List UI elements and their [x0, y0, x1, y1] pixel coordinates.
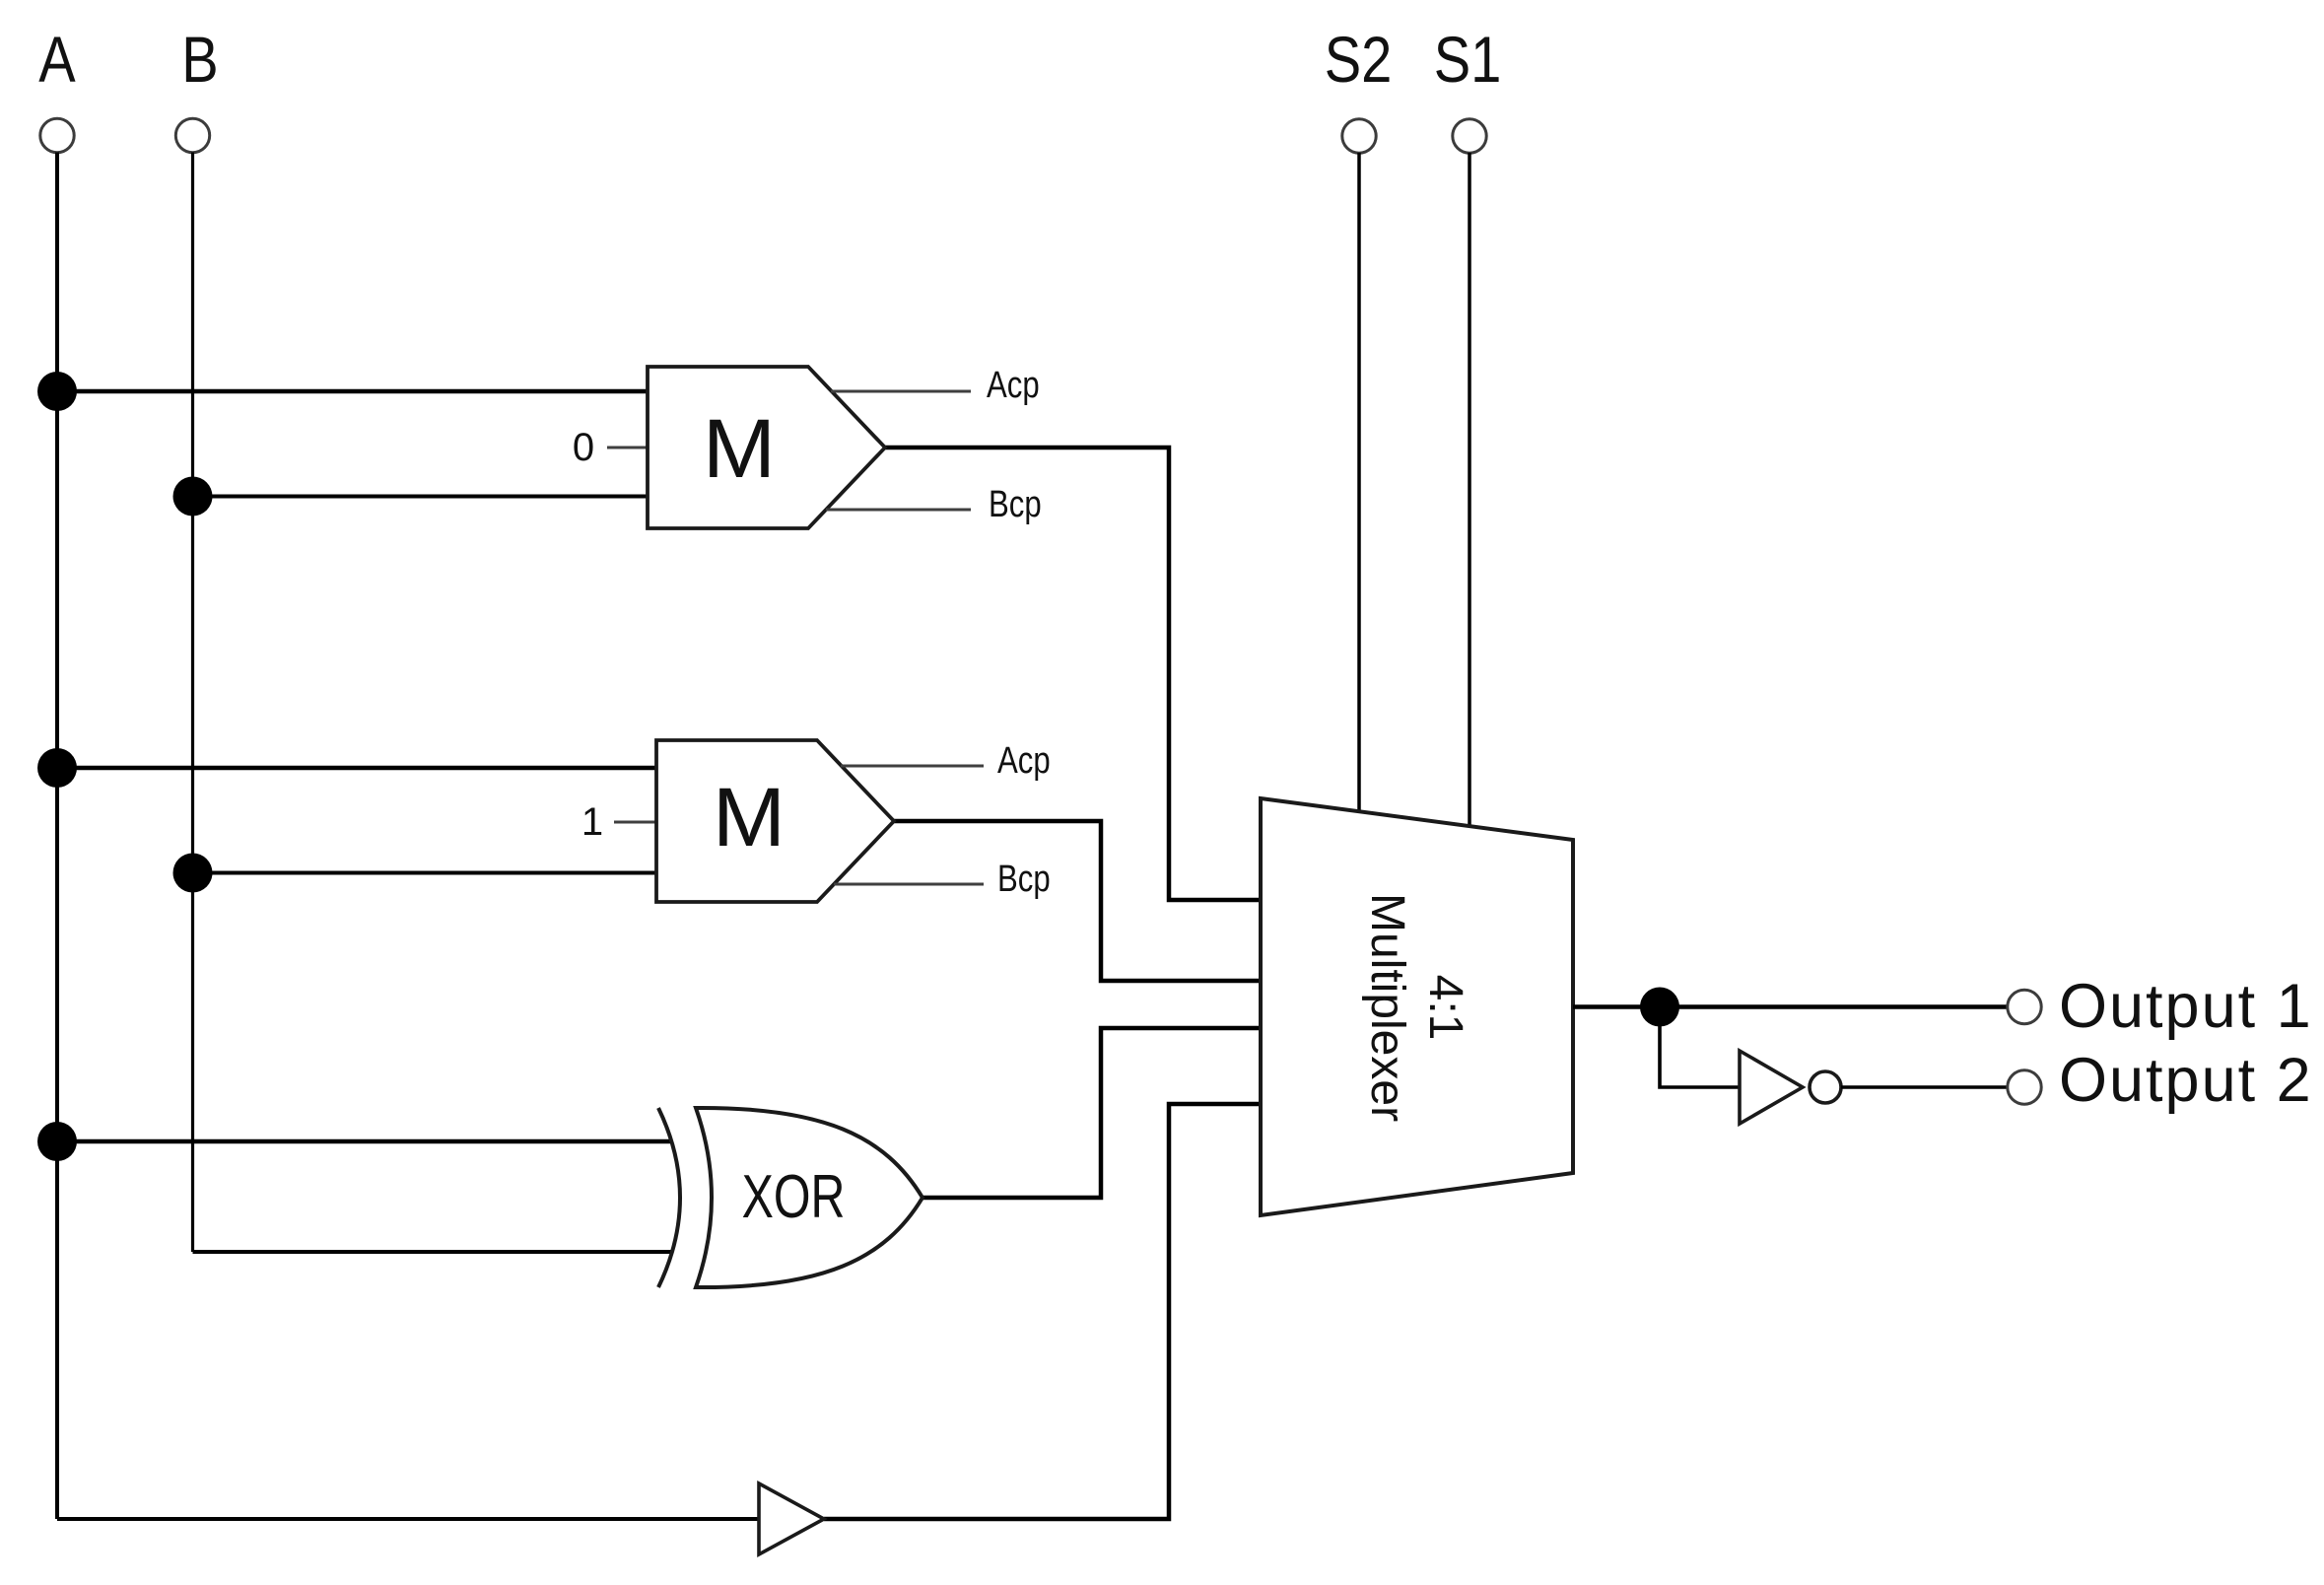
svg-text:S1: S1: [1434, 24, 1502, 96]
label M of M1: [703, 403, 776, 495]
node S1 label: [1434, 24, 1502, 96]
node S2 label: [1325, 24, 1393, 96]
wire: constant 1 stub: [614, 821, 656, 824]
wire: S1 vertical to mux: [1468, 153, 1471, 829]
terminal S2: [1342, 119, 1376, 153]
label Bcp of M1: [989, 484, 1042, 525]
wire: A to M2 input: [57, 766, 656, 771]
wire: mux output to junction and Output 1: [1573, 1004, 2008, 1009]
inverter triangle: [1740, 1051, 1803, 1124]
svg-text:A: A: [38, 24, 76, 96]
svg-text:XOR: XOR: [742, 1162, 846, 1230]
XOR gate body: [696, 1108, 923, 1287]
terminal B: [175, 118, 209, 152]
label Acp of M2: [997, 740, 1051, 782]
wire: B to M2 input: [193, 871, 657, 875]
svg-text:Bcp: Bcp: [989, 484, 1042, 525]
svg-text:Bcp: Bcp: [997, 859, 1051, 900]
junction dot output node: [1640, 988, 1679, 1027]
wire: B to M1 input: [193, 495, 649, 499]
svg-text:B: B: [181, 24, 218, 96]
wire: XOR output to mux input 3: [923, 1028, 1261, 1198]
wire: B bus vertical: [191, 153, 194, 1253]
junction dot B-M2: [173, 854, 213, 893]
wire: M1 Bcp stub: [826, 509, 971, 512]
svg-text:4:1: 4:1: [1419, 975, 1471, 1041]
svg-text:S2: S2: [1325, 24, 1393, 96]
label Bcp of M2: [997, 859, 1051, 900]
svg-text:Output 2: Output 2: [2059, 1046, 2313, 1115]
terminal A: [40, 118, 74, 152]
junction dot A-XOR: [37, 1122, 77, 1161]
XOR gate input arc: [658, 1108, 680, 1287]
node B label: [181, 24, 218, 96]
wire: M1 output to mux input 1: [885, 448, 1261, 900]
svg-text:M: M: [703, 403, 776, 495]
wire: A bus vertical: [55, 153, 59, 1520]
junction dot A-M2: [37, 748, 77, 788]
majority gate M2: [656, 740, 894, 902]
terminal Output 2: [2008, 1070, 2041, 1104]
svg-text:0: 0: [573, 426, 594, 469]
wire: M2 Acp stub: [841, 765, 984, 768]
junction dot B-M1: [173, 477, 213, 517]
label M of M2: [713, 772, 786, 863]
wire: M2 Bcp stub: [834, 883, 984, 886]
label 4:1 Multiplexer: [1361, 893, 1471, 1122]
wire: branch to inverter: [1660, 1007, 1740, 1088]
inverter bubble: [1810, 1071, 1841, 1103]
wire: M2 output to mux input 2: [894, 821, 1261, 981]
wire: M1 Acp stub: [831, 390, 971, 393]
wire: buffer output to mux input 4: [824, 1104, 1261, 1519]
wire: constant 0 stub: [607, 447, 648, 449]
terminal Output 1: [2008, 990, 2041, 1023]
terminal S1: [1453, 119, 1486, 153]
svg-text:Acp: Acp: [997, 740, 1051, 782]
buffer triangle feedback: [759, 1483, 824, 1554]
node A label: [38, 24, 76, 96]
label XOR: [742, 1162, 846, 1230]
junction dot A-M1: [37, 372, 77, 411]
wire: inverter to Output 2: [1841, 1085, 2008, 1089]
svg-text:Output 1: Output 1: [2059, 972, 2313, 1041]
label Acp of M1: [987, 365, 1040, 406]
majority gate M1: [648, 367, 885, 528]
wire: B to XOR input: [193, 1250, 672, 1254]
wire: A feedback to buffer: [57, 1517, 759, 1521]
wire: A to M1 input: [57, 389, 648, 394]
svg-text:1: 1: [581, 800, 603, 844]
svg-text:Acp: Acp: [987, 365, 1040, 406]
svg-text:Multiplexer: Multiplexer: [1361, 893, 1413, 1122]
4:1 multiplexer body: [1261, 798, 1573, 1215]
svg-text:M: M: [713, 772, 786, 863]
wire: A to XOR input: [57, 1139, 671, 1144]
wire: S2 vertical to mux: [1357, 153, 1361, 814]
